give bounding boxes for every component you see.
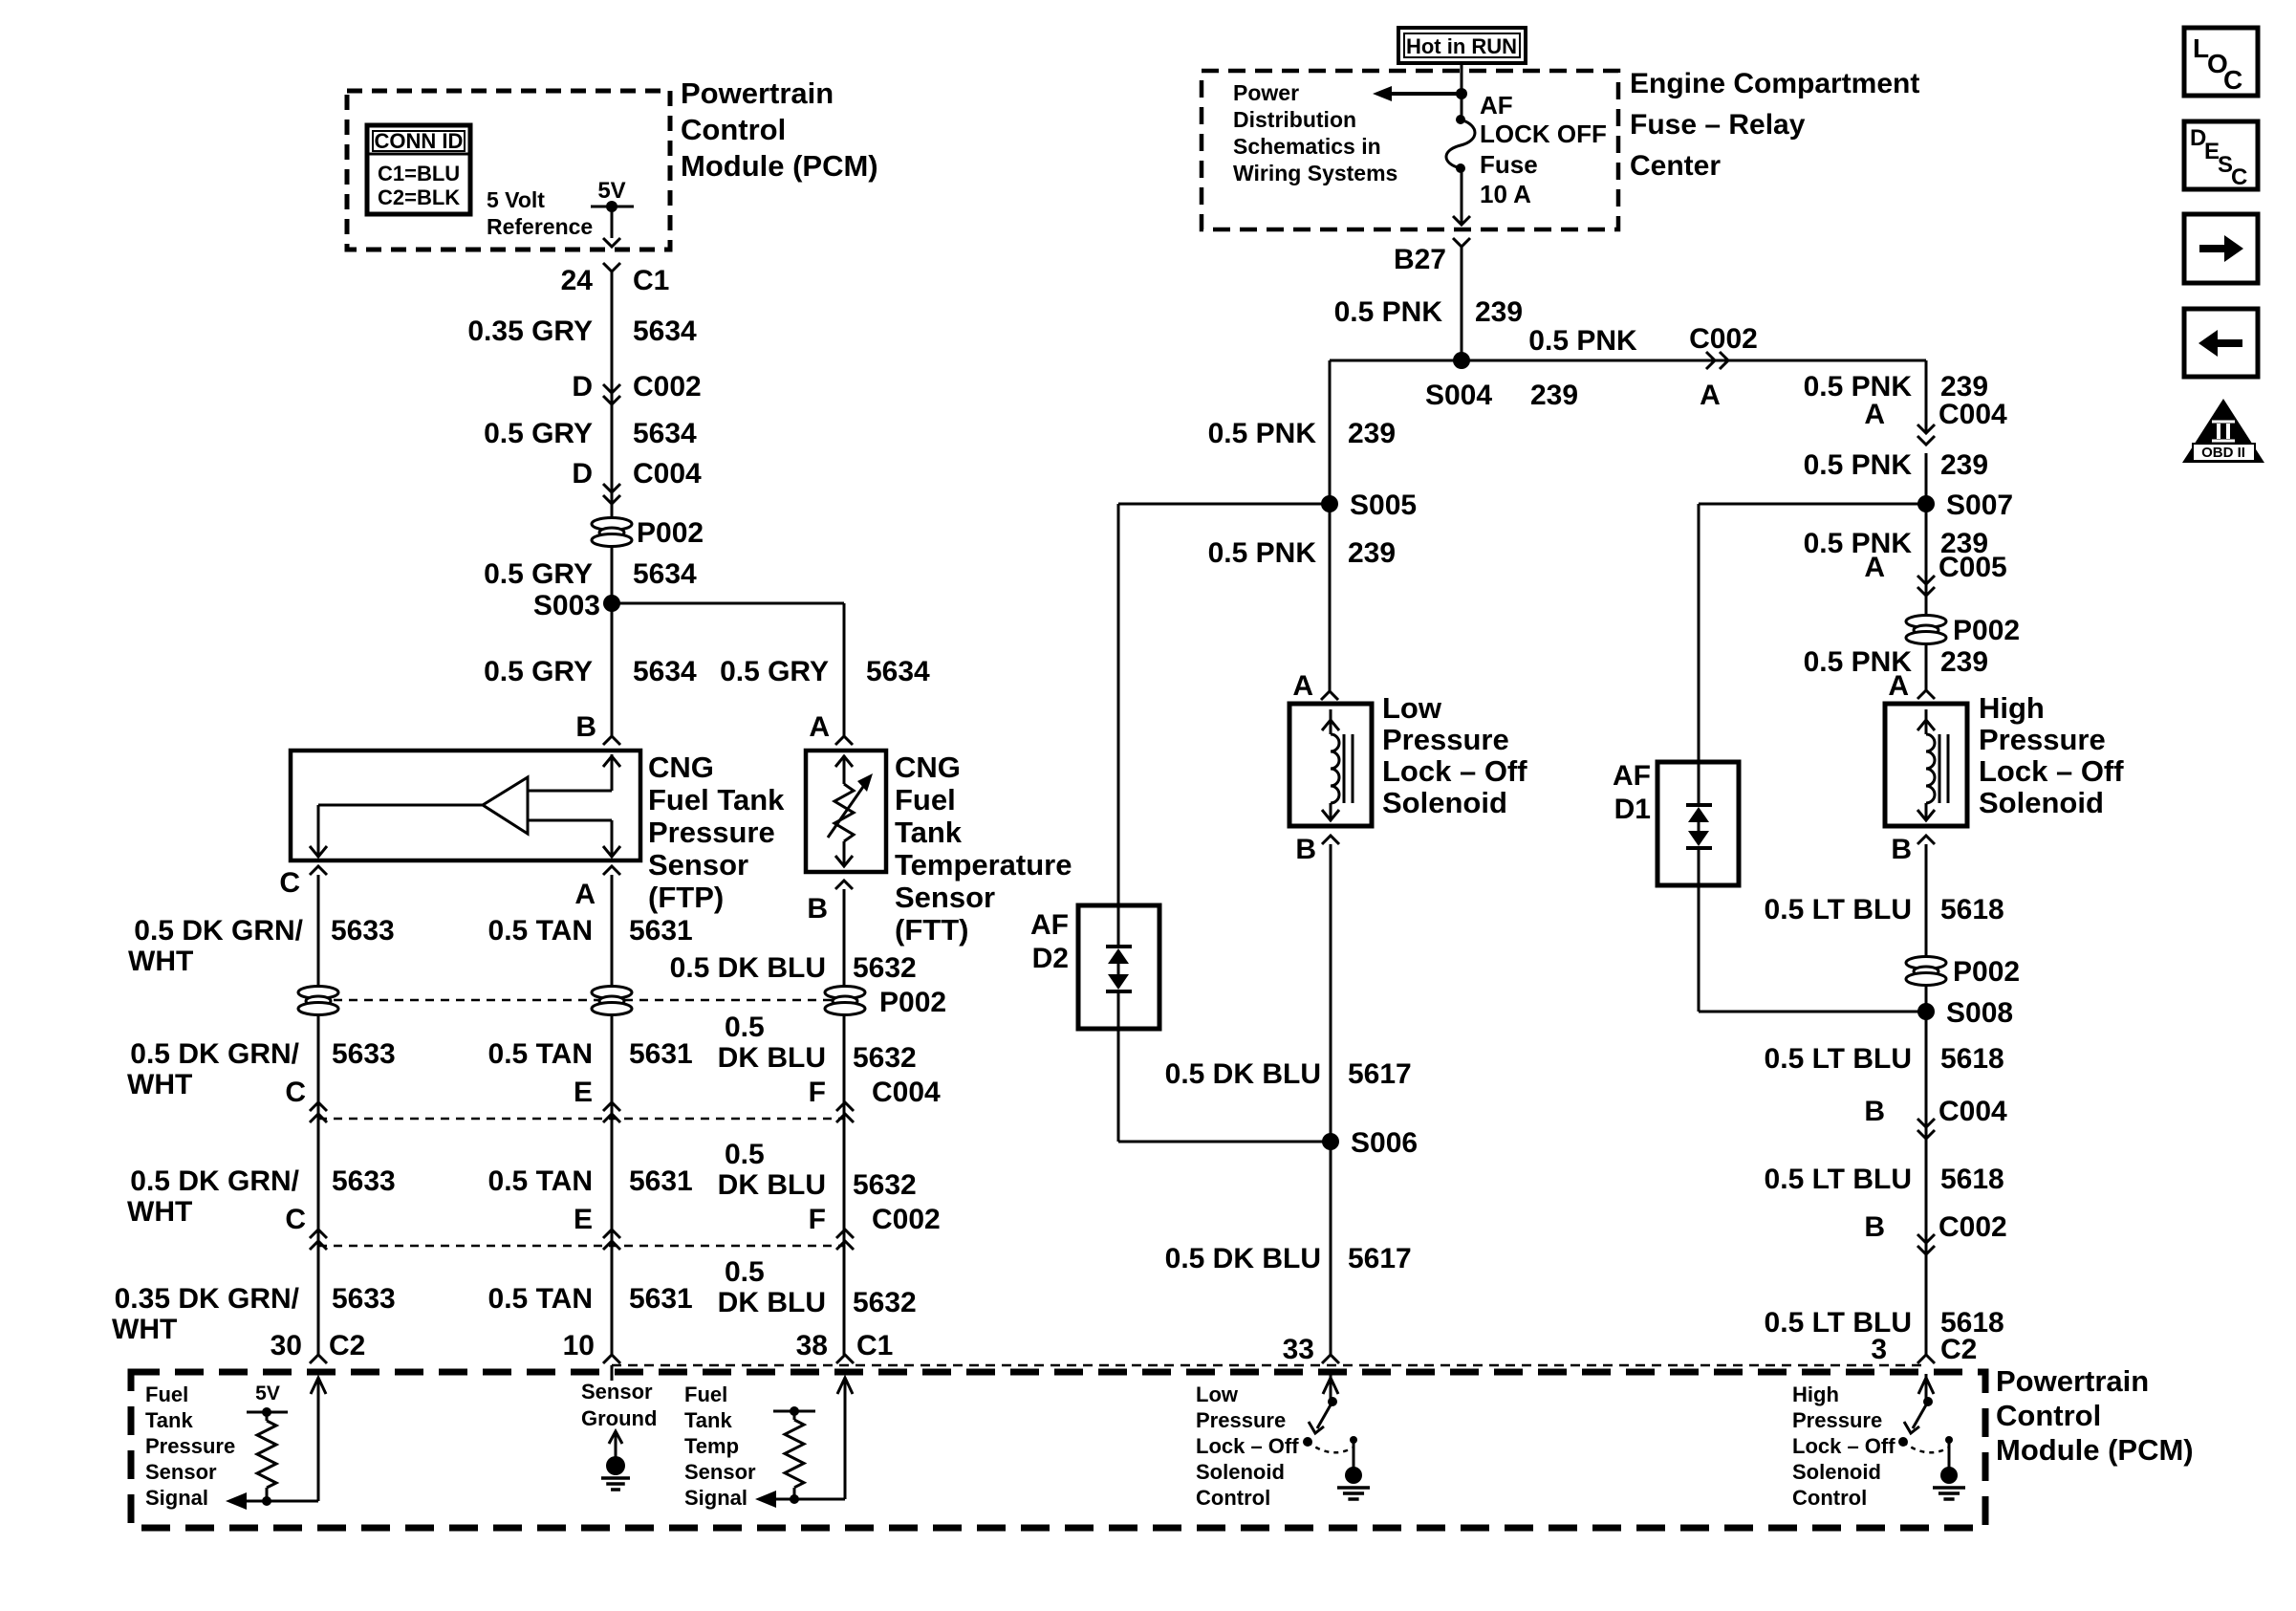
- svg-text:5631: 5631: [629, 1283, 693, 1315]
- svg-text:E: E: [574, 1204, 593, 1235]
- svg-text:C004: C004: [633, 458, 702, 490]
- svg-text:C2=BLK: C2=BLK: [378, 185, 460, 209]
- svg-text:0.5: 0.5: [725, 1256, 765, 1288]
- svg-text:24: 24: [561, 265, 594, 296]
- svg-text:5618: 5618: [1940, 1164, 2004, 1195]
- svg-text:C: C: [2223, 65, 2242, 95]
- svg-text:Power: Power: [1233, 80, 1299, 105]
- svg-text:A: A: [1864, 399, 1885, 430]
- svg-text:0.35 DK GRN/: 0.35 DK GRN/: [115, 1283, 300, 1315]
- svg-text:5634: 5634: [633, 558, 697, 590]
- svg-text:5634: 5634: [633, 656, 697, 687]
- svg-text:C002: C002: [1689, 323, 1758, 355]
- svg-text:Distribution: Distribution: [1233, 107, 1356, 132]
- svg-text:0.5 PNK: 0.5 PNK: [1804, 449, 1913, 481]
- svg-text:5617: 5617: [1348, 1243, 1412, 1274]
- svg-text:Pressure: Pressure: [648, 816, 775, 849]
- svg-text:Low: Low: [1382, 691, 1442, 725]
- svg-text:A: A: [1700, 380, 1721, 411]
- svg-text:B: B: [1295, 834, 1316, 865]
- svg-text:0.5 PNK: 0.5 PNK: [1334, 296, 1443, 328]
- svg-text:0.5 PNK: 0.5 PNK: [1528, 325, 1637, 357]
- svg-text:C1: C1: [633, 265, 669, 296]
- svg-text:0.5 LT BLU: 0.5 LT BLU: [1765, 1164, 1912, 1195]
- svg-text:F: F: [809, 1077, 826, 1108]
- svg-text:AF: AF: [1030, 909, 1069, 941]
- svg-text:WHT: WHT: [127, 1196, 192, 1228]
- svg-text:Powertrain: Powertrain: [1996, 1364, 2149, 1398]
- svg-text:Lock – Off: Lock – Off: [1979, 754, 2124, 788]
- svg-text:239: 239: [1348, 418, 1396, 449]
- svg-text:5618: 5618: [1940, 894, 2004, 925]
- svg-text:Solenoid: Solenoid: [1792, 1460, 1881, 1484]
- svg-text:Wiring Systems: Wiring Systems: [1233, 161, 1397, 185]
- svg-text:C: C: [279, 867, 300, 899]
- svg-text:CNG: CNG: [895, 751, 961, 784]
- svg-text:Fuel: Fuel: [145, 1382, 188, 1406]
- svg-text:0.35 GRY: 0.35 GRY: [467, 316, 593, 347]
- svg-text:A: A: [1864, 552, 1885, 583]
- svg-text:0.5 LT BLU: 0.5 LT BLU: [1765, 1307, 1912, 1339]
- svg-text:0.5 GRY: 0.5 GRY: [484, 558, 593, 590]
- svg-text:C2: C2: [1940, 1334, 1977, 1365]
- svg-text:5632: 5632: [853, 1169, 917, 1201]
- svg-text:0.5 PNK: 0.5 PNK: [1804, 528, 1913, 559]
- svg-text:Signal: Signal: [145, 1486, 208, 1510]
- svg-text:0.5 DK GRN/: 0.5 DK GRN/: [134, 915, 303, 947]
- svg-text:239: 239: [1940, 449, 1988, 481]
- svg-text:0.5 PNK: 0.5 PNK: [1804, 371, 1913, 403]
- svg-text:5633: 5633: [332, 1165, 396, 1197]
- svg-text:Module (PCM): Module (PCM): [681, 149, 878, 183]
- svg-text:Pressure: Pressure: [145, 1434, 235, 1458]
- svg-text:0.5: 0.5: [725, 1012, 765, 1043]
- svg-text:Fuel: Fuel: [684, 1382, 727, 1406]
- svg-text:Lock – Off: Lock – Off: [1792, 1434, 1895, 1458]
- svg-text:Control: Control: [1792, 1486, 1867, 1510]
- svg-text:Pressure: Pressure: [1979, 723, 2106, 756]
- svg-text:5633: 5633: [331, 915, 395, 947]
- svg-text:C2: C2: [329, 1330, 365, 1361]
- svg-text:Ground: Ground: [581, 1406, 657, 1430]
- svg-text:Sensor: Sensor: [581, 1380, 653, 1404]
- svg-text:Control: Control: [1996, 1399, 2101, 1432]
- svg-text:AF: AF: [1613, 760, 1651, 792]
- svg-text:5 Volt: 5 Volt: [487, 187, 545, 212]
- svg-text:0.5 GRY: 0.5 GRY: [720, 656, 829, 687]
- svg-text:Fuel: Fuel: [895, 783, 956, 816]
- svg-text:0.5 PNK: 0.5 PNK: [1208, 418, 1317, 449]
- svg-text:Temperature: Temperature: [895, 848, 1072, 882]
- svg-text:WHT: WHT: [128, 946, 193, 977]
- svg-text:P002: P002: [1953, 956, 2020, 988]
- svg-text:C005: C005: [1939, 552, 2007, 583]
- svg-text:Sensor: Sensor: [145, 1460, 217, 1484]
- svg-text:5633: 5633: [332, 1283, 396, 1315]
- svg-text:5631: 5631: [629, 1165, 693, 1197]
- svg-text:5632: 5632: [853, 952, 917, 984]
- svg-text:DK BLU: DK BLU: [718, 1042, 826, 1074]
- svg-text:A: A: [1292, 670, 1313, 702]
- svg-text:5631: 5631: [629, 915, 693, 947]
- svg-text:0.5 DK GRN/: 0.5 DK GRN/: [130, 1165, 299, 1197]
- svg-text:C1: C1: [856, 1330, 893, 1361]
- svg-text:B: B: [1864, 1096, 1885, 1127]
- svg-text:D2: D2: [1032, 943, 1069, 974]
- svg-text:B: B: [575, 711, 596, 743]
- svg-text:Signal: Signal: [684, 1486, 747, 1510]
- svg-text:E: E: [574, 1077, 593, 1108]
- svg-text:S005: S005: [1350, 490, 1417, 521]
- svg-text:WHT: WHT: [127, 1069, 192, 1100]
- svg-text:Fuse – Relay: Fuse – Relay: [1630, 109, 1806, 141]
- svg-text:Pressure: Pressure: [1382, 723, 1509, 756]
- svg-text:Schematics in: Schematics in: [1233, 134, 1381, 159]
- svg-text:5634: 5634: [866, 656, 930, 687]
- svg-text:Solenoid: Solenoid: [1382, 786, 1507, 819]
- svg-text:C1=BLU: C1=BLU: [378, 162, 460, 185]
- svg-text:239: 239: [1348, 537, 1396, 569]
- svg-text:B: B: [807, 893, 828, 925]
- svg-text:Engine Compartment: Engine Compartment: [1630, 68, 1919, 99]
- svg-text:C: C: [285, 1204, 306, 1235]
- svg-text:0.5 LT BLU: 0.5 LT BLU: [1765, 1043, 1912, 1075]
- svg-text:A: A: [1888, 670, 1909, 702]
- svg-text:Solenoid: Solenoid: [1196, 1460, 1285, 1484]
- svg-text:B: B: [1864, 1211, 1885, 1243]
- svg-text:5632: 5632: [853, 1042, 917, 1074]
- svg-text:0.5 DK BLU: 0.5 DK BLU: [1165, 1243, 1321, 1274]
- svg-text:5634: 5634: [633, 316, 697, 347]
- svg-text:3: 3: [1871, 1334, 1887, 1365]
- svg-text:Lock – Off: Lock – Off: [1382, 754, 1527, 788]
- svg-text:0.5 TAN: 0.5 TAN: [488, 1038, 593, 1070]
- svg-text:C004: C004: [1939, 399, 2007, 430]
- svg-text:F: F: [809, 1204, 826, 1235]
- svg-text:0.5 LT BLU: 0.5 LT BLU: [1765, 894, 1912, 925]
- svg-text:(FTT): (FTT): [895, 913, 968, 947]
- svg-text:30: 30: [271, 1330, 302, 1361]
- svg-text:0.5 GRY: 0.5 GRY: [484, 656, 593, 687]
- svg-text:S008: S008: [1946, 997, 2013, 1029]
- svg-text:Module (PCM): Module (PCM): [1996, 1433, 2194, 1467]
- svg-text:0.5 DK BLU: 0.5 DK BLU: [670, 952, 826, 984]
- svg-text:Control: Control: [681, 113, 786, 146]
- svg-text:Pressure: Pressure: [1196, 1408, 1286, 1432]
- svg-text:C: C: [2231, 164, 2247, 190]
- svg-text:5632: 5632: [853, 1287, 917, 1318]
- svg-text:Control: Control: [1196, 1486, 1270, 1510]
- svg-text:Sensor: Sensor: [895, 881, 995, 914]
- svg-text:239: 239: [1530, 380, 1578, 411]
- svg-text:38: 38: [796, 1330, 828, 1361]
- svg-text:33: 33: [1283, 1334, 1314, 1365]
- svg-text:D1: D1: [1614, 794, 1651, 825]
- svg-text:Tank: Tank: [145, 1408, 193, 1432]
- svg-text:0.5 PNK: 0.5 PNK: [1208, 537, 1317, 569]
- svg-text:S006: S006: [1351, 1127, 1418, 1159]
- svg-text:D: D: [572, 458, 593, 490]
- svg-text:D: D: [572, 371, 593, 403]
- svg-text:239: 239: [1940, 646, 1988, 678]
- svg-text:Tank: Tank: [684, 1408, 732, 1432]
- svg-text:5631: 5631: [629, 1038, 693, 1070]
- svg-text:OBD II: OBD II: [2201, 445, 2245, 461]
- svg-text:B27: B27: [1394, 244, 1446, 275]
- svg-text:0.5 GRY: 0.5 GRY: [484, 418, 593, 449]
- svg-text:S003: S003: [533, 590, 600, 621]
- svg-text:CNG: CNG: [648, 751, 714, 784]
- svg-text:5V: 5V: [597, 178, 625, 204]
- svg-text:10 A: 10 A: [1480, 180, 1531, 208]
- svg-text:DK BLU: DK BLU: [718, 1169, 826, 1201]
- svg-text:5617: 5617: [1348, 1058, 1412, 1090]
- svg-text:B: B: [1891, 834, 1912, 865]
- svg-text:5V: 5V: [255, 1382, 280, 1404]
- svg-text:0.5: 0.5: [725, 1139, 765, 1170]
- svg-text:AF: AF: [1480, 91, 1513, 120]
- svg-text:Hot in RUN: Hot in RUN: [1406, 34, 1517, 58]
- svg-text:Tank: Tank: [895, 816, 963, 849]
- svg-text:C002: C002: [872, 1204, 941, 1235]
- svg-text:S007: S007: [1946, 490, 2013, 521]
- svg-text:C004: C004: [872, 1077, 941, 1108]
- svg-text:CONN ID: CONN ID: [375, 129, 464, 153]
- svg-text:P002: P002: [879, 987, 946, 1018]
- svg-text:Reference: Reference: [487, 214, 593, 239]
- svg-text:C: C: [285, 1077, 306, 1108]
- svg-text:Powertrain: Powertrain: [681, 76, 834, 110]
- svg-text:Fuel Tank: Fuel Tank: [648, 783, 785, 816]
- svg-text:(FTP): (FTP): [648, 881, 724, 914]
- svg-text:A: A: [809, 711, 830, 743]
- svg-text:5618: 5618: [1940, 1043, 2004, 1075]
- svg-text:C002: C002: [1939, 1211, 2007, 1243]
- svg-text:Pressure: Pressure: [1792, 1408, 1882, 1432]
- svg-text:5633: 5633: [332, 1038, 396, 1070]
- svg-text:Temp: Temp: [684, 1434, 739, 1458]
- svg-text:Fuse: Fuse: [1480, 150, 1538, 179]
- svg-text:0.5 TAN: 0.5 TAN: [488, 915, 593, 947]
- svg-text:DK BLU: DK BLU: [718, 1287, 826, 1318]
- svg-text:Lock – Off: Lock – Off: [1196, 1434, 1299, 1458]
- svg-text:10: 10: [563, 1330, 595, 1361]
- svg-text:S004: S004: [1425, 380, 1492, 411]
- svg-text:5634: 5634: [633, 418, 697, 449]
- svg-text:0.5 DK GRN/: 0.5 DK GRN/: [130, 1038, 299, 1070]
- svg-text:0.5 TAN: 0.5 TAN: [488, 1165, 593, 1197]
- svg-text:Solenoid: Solenoid: [1979, 786, 2104, 819]
- svg-text:High: High: [1979, 691, 2045, 725]
- svg-text:Low: Low: [1196, 1382, 1239, 1406]
- svg-text:0.5 TAN: 0.5 TAN: [488, 1283, 593, 1315]
- svg-text:WHT: WHT: [112, 1314, 177, 1345]
- svg-text:P002: P002: [1953, 615, 2020, 646]
- svg-text:LOCK OFF: LOCK OFF: [1480, 120, 1607, 148]
- svg-text:High: High: [1792, 1382, 1839, 1406]
- svg-text:239: 239: [1475, 296, 1523, 328]
- svg-text:C002: C002: [633, 371, 702, 403]
- svg-text:A: A: [574, 879, 596, 910]
- svg-text:Sensor: Sensor: [648, 848, 748, 882]
- svg-text:Sensor: Sensor: [684, 1460, 756, 1484]
- svg-text:0.5 DK BLU: 0.5 DK BLU: [1165, 1058, 1321, 1090]
- svg-text:Center: Center: [1630, 150, 1721, 182]
- svg-text:P002: P002: [637, 517, 704, 549]
- svg-text:C004: C004: [1939, 1096, 2007, 1127]
